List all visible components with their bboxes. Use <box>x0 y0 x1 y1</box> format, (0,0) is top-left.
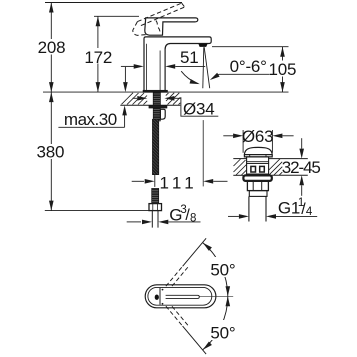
svg-text:Ø34: Ø34 <box>183 99 215 118</box>
swing line lower offset dashed <box>172 306 189 326</box>
dimension 32-45 <box>299 138 304 196</box>
deck bottom line <box>120 104 180 106</box>
shank thread below washer <box>153 108 160 121</box>
G3/8 dimension line + underline <box>127 220 201 225</box>
water stream 0deg line <box>203 47 204 88</box>
deck top line <box>43 91 289 93</box>
aerator <box>198 44 207 47</box>
drain nut <box>247 181 268 191</box>
G3/8 nut <box>149 204 162 211</box>
hose nipple fitting <box>160 109 165 119</box>
washer below deck <box>149 105 167 108</box>
valve body upper band <box>247 157 269 164</box>
lever base edge line <box>159 288 161 305</box>
drain collar <box>249 191 267 197</box>
body inner right line <box>159 51 161 91</box>
dimension line 208 <box>49 3 54 93</box>
screw dots <box>162 289 164 291</box>
dashed handle raised position <box>133 3 185 35</box>
svg-text:8: 8 <box>190 213 196 225</box>
dimension arrows Ø34 into deck <box>133 96 181 101</box>
G3/8 thread end <box>152 188 159 203</box>
svg-text:50°: 50° <box>210 261 235 280</box>
water stream 6deg line <box>204 47 210 88</box>
angle arc arrow left (0-6deg) <box>181 71 200 86</box>
inner capsule <box>148 287 212 305</box>
extension line 380 bottom <box>45 210 152 212</box>
centerline <box>199 295 233 297</box>
max.30 leader <box>58 105 126 127</box>
svg-text:51: 51 <box>180 48 199 67</box>
valve body slot section <box>246 163 248 175</box>
flange <box>243 175 271 181</box>
drain tail pipe <box>248 196 250 221</box>
dimension line 105 <box>280 47 285 92</box>
body inner left line <box>146 44 148 90</box>
svg-text:G1: G1 <box>278 199 300 218</box>
max.30 top arrow <box>123 67 128 92</box>
swing line lower dashed <box>166 306 183 326</box>
arc arrowheads <box>201 241 212 251</box>
svg-text:50°: 50° <box>210 324 235 343</box>
svg-text:4: 4 <box>306 206 313 218</box>
svg-text:172: 172 <box>84 48 112 67</box>
svg-text:0°-6°: 0°-6° <box>230 57 267 76</box>
dimension 51 <box>121 64 205 69</box>
svg-text:max.30: max.30 <box>64 110 117 129</box>
svg-text:380: 380 <box>37 143 65 162</box>
swing line upper solid <box>183 238 207 266</box>
label 50deg upper, with white backing <box>208 257 238 280</box>
swing line lower solid <box>183 326 207 354</box>
outer capsule (top view) <box>145 285 216 308</box>
deck hatch left <box>122 93 148 105</box>
svg-text:105: 105 <box>269 60 297 79</box>
SIDE VIEW GROUP <box>43 3 289 228</box>
faucet body and spout outline <box>144 37 211 90</box>
hose centerline tick <box>154 175 156 187</box>
swing line upper dashed <box>166 266 183 286</box>
G1 1/4 dimension line <box>228 214 317 219</box>
deck hatch right <box>166 93 181 105</box>
label 50deg lower <box>208 320 238 343</box>
extension line spout outlet (105 ref) <box>212 46 289 48</box>
pivot oval <box>155 295 159 300</box>
extension line top (208 ref) <box>45 2 182 4</box>
extension line (172 ref) <box>94 15 139 17</box>
threaded shank <box>153 92 160 105</box>
dimension line 172 <box>96 16 101 92</box>
BOTTOM VIEW GROUP <box>145 238 233 354</box>
svg-text:208: 208 <box>38 38 66 57</box>
Ø63 extension ticks <box>242 130 244 153</box>
extension line 111 right (from spout) <box>202 120 204 186</box>
swing line upper offset dashed <box>172 266 189 286</box>
dimension line 380 <box>49 92 54 211</box>
mounting gasket <box>143 90 168 92</box>
drain push cap dome <box>244 147 272 154</box>
angle arc lower <box>203 296 228 350</box>
basin deck lines (drain) <box>233 158 246 160</box>
svg-text:32-45: 32-45 <box>282 158 321 177</box>
leader 0-6deg <box>209 73 270 82</box>
svg-text:111: 111 <box>159 173 197 192</box>
Ø63 arrows <box>223 134 293 139</box>
deck hatch left (drain) <box>234 159 247 175</box>
handle lever solid <box>145 18 198 35</box>
DRAIN VIEW GROUP <box>223 130 317 222</box>
Ø34 label frame <box>181 97 218 116</box>
lever slot <box>166 295 200 298</box>
flexible hose <box>152 119 158 175</box>
overflow holes <box>251 166 256 172</box>
connection pipe G3/8 <box>151 211 153 228</box>
svg-text:Ø63: Ø63 <box>242 127 274 146</box>
angle arc upper <box>203 243 228 297</box>
dimension 111 <box>132 179 228 184</box>
deck hatch right (drain) <box>269 159 283 175</box>
